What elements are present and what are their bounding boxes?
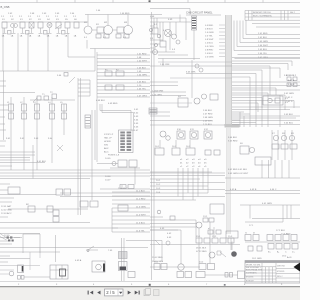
relay K3	[55, 16, 62, 38]
cab header text	[186, 11, 221, 16]
ladder rung 6	[97, 72, 150, 74]
right mid wires	[225, 178, 300, 205]
svg-text:2 / 5: 2 / 5	[106, 290, 115, 295]
ladder rung 4	[97, 65, 150, 67]
zone dot	[149, 284, 151, 286]
cab lamp	[165, 30, 172, 37]
connector row B wire	[245, 241, 300, 243]
svg-text:SH 2: SH 2	[290, 12, 296, 14]
rung ladder labels lower	[136, 191, 146, 233]
svg-text:11.6 YEL: 11.6 YEL	[136, 231, 146, 233]
cab lamp 3	[153, 50, 158, 55]
svg-text:4.03 B: 4.03 B	[250, 189, 257, 191]
cluster boxes mid-bottom	[80, 201, 128, 211]
ladder rung 9	[97, 82, 150, 84]
solenoid L1	[7, 97, 14, 135]
relay cluster mid-left	[24, 158, 140, 277]
svg-text:BOBCAT: BOBCAT	[246, 280, 254, 283]
fanout wire 7	[235, 58, 301, 60]
left bus verticals	[4, 71, 96, 215]
elbow labels	[96, 100, 118, 105]
svg-text:6.05 CRK: 6.05 CRK	[186, 72, 196, 74]
relay bank right	[272, 133, 297, 149]
bottom chain wire	[150, 267, 238, 275]
relay cluster mid-right	[228, 137, 255, 154]
svg-text:2.02 BLK: 2.02 BLK	[258, 37, 268, 39]
harness band	[226, 15, 232, 127]
wire right elbow rows	[245, 205, 300, 222]
bottom-mid extra stubs	[150, 217, 178, 230]
svg-text:4.09 RED: 4.09 RED	[108, 103, 118, 105]
fuse F1	[105, 70, 112, 77]
relay labels	[177, 129, 209, 131]
gauge M1	[84, 15, 92, 35]
svg-text:4.01 GRN: 4.01 GRN	[262, 203, 272, 205]
right mid labels	[230, 188, 277, 205]
right ladder wires	[232, 66, 300, 125]
svg-text:3.04 BLU: 3.04 BLU	[284, 123, 294, 125]
svg-text:14.07: 14.07	[105, 180, 111, 182]
svg-text:B_OSB: B_OSB	[1, 5, 10, 9]
svg-text:ACC: ACC	[104, 151, 109, 154]
svg-text:DWG NO: DWG NO	[277, 266, 286, 268]
connector J1 hatched	[192, 16, 197, 60]
svg-text:0.8 WHT: 0.8 WHT	[205, 39, 214, 41]
svg-text:ELECTRICAL SYS: ELECTRICAL SYS	[246, 269, 263, 272]
fanout short lines	[252, 24, 300, 28]
relay K1	[19, 16, 25, 38]
mesh label grid	[180, 159, 207, 168]
connector row B	[245, 233, 297, 241]
right mid texts	[228, 169, 249, 175]
cab wire extra2	[150, 18, 186, 48]
right ladder extra lines	[232, 58, 300, 123]
svg-text:1.05 CRK: 1.05 CRK	[160, 64, 170, 66]
wire lower loop	[0, 49, 150, 72]
bottom-mid diagonal	[217, 251, 226, 257]
solenoid L3	[33, 97, 40, 135]
fuse F3	[105, 85, 124, 90]
svg-text:7.02 D: 7.02 D	[286, 101, 293, 103]
svg-text:1.04 GRN: 1.04 GRN	[137, 75, 147, 77]
svg-text:A-: A-	[277, 251, 279, 254]
solenoid L2	[20, 97, 27, 135]
row2 bus wires	[0, 77, 75, 102]
svg-text:CAB CIRCUIT PANEL: CAB CIRCUIT PANEL	[186, 11, 213, 15]
fanout wire 6	[238, 54, 301, 56]
svg-text:6720185: 6720185	[277, 271, 284, 273]
svg-text:11.3 GRN: 11.3 GRN	[136, 207, 146, 209]
page top border	[0, 0, 300, 3]
upper chain wires	[150, 220, 196, 227]
svg-text:FUSES 1-8: FUSES 1-8	[108, 155, 120, 157]
svg-text:0.8 BLK: 0.8 BLK	[205, 29, 213, 31]
cluster near 200,222	[196, 216, 214, 228]
cab extra wires	[150, 15, 200, 67]
alternator A1	[92, 261, 105, 272]
fanout wire 2	[243, 21, 300, 39]
gauge M3	[124, 15, 133, 35]
toolbar first-page button	[88, 291, 94, 295]
label column right of panel	[134, 109, 139, 132]
mesh verticals	[178, 168, 208, 200]
diode D1	[195, 64, 203, 72]
comp vertical B4	[53, 210, 59, 222]
left lower wires	[0, 190, 118, 234]
svg-text:3.03 BLK: 3.03 BLK	[284, 114, 294, 116]
svg-text:SCHEMATIC: SCHEMATIC	[246, 272, 258, 275]
svg-text:2.01 RED: 2.01 RED	[258, 33, 268, 35]
svg-text:0.5 YEL: 0.5 YEL	[205, 36, 214, 38]
svg-text:4.04 C: 4.04 C	[270, 189, 277, 191]
connector C3 with marks	[119, 262, 128, 271]
starter cluster	[50, 265, 68, 279]
top small boxes row	[96, 34, 129, 38]
right ladder labels	[284, 75, 294, 125]
lower cluster labels	[100, 185, 150, 190]
fanout wire 3	[240, 21, 300, 43]
toolbar snapshot icon disabled	[144, 289, 151, 296]
ladder rung 7	[97, 75, 150, 77]
bottom-left wires	[0, 235, 148, 262]
battery comp	[9, 265, 24, 279]
right mid verticals	[262, 160, 289, 178]
relay K4 cluster	[178, 60, 218, 107]
svg-text:1.0 GRN: 1.0 GRN	[205, 32, 214, 34]
svg-text:BOBCAT 743 DSL: BOBCAT 743 DSL	[253, 11, 272, 14]
row2 comp labels	[6, 138, 53, 140]
resistor block R1	[96, 24, 104, 33]
toolbar hand icon disabled	[154, 290, 160, 296]
solenoid L4	[48, 97, 55, 135]
svg-text:15.03 GRN: 15.03 GRN	[152, 261, 163, 263]
svg-text:1.03 BLK: 1.03 BLK	[137, 68, 147, 70]
right cluster lower	[263, 96, 289, 105]
left lower text cluster	[1, 205, 12, 215]
svg-text:11.4 WHT: 11.4 WHT	[136, 215, 146, 217]
ladder rung 12	[97, 93, 150, 95]
svg-text:STOP LP: STOP LP	[104, 134, 114, 136]
fuse F2	[116, 70, 124, 77]
wire left edge stubs	[0, 81, 30, 262]
toolbar prev button	[97, 291, 100, 295]
svg-text:11.2 RED: 11.2 RED	[136, 199, 146, 201]
cab circles extra	[150, 16, 181, 51]
svg-text:6.02 B: 6.02 B	[288, 84, 295, 86]
toolbar next button	[128, 291, 131, 295]
chain small comps	[225, 273, 233, 278]
chain boxes 2	[199, 262, 215, 270]
box B1	[8, 187, 20, 194]
wire mid fillers	[60, 66, 232, 197]
svg-text:4.02 A: 4.02 A	[230, 188, 237, 191]
bottom zone ticks	[18, 284, 283, 286]
lamp L11 dark	[231, 251, 237, 257]
diode D2	[57, 145, 63, 151]
toolbar top line	[0, 286, 300, 288]
chain lamp	[178, 264, 184, 270]
mesh box	[210, 204, 224, 214]
relay K2	[28, 16, 34, 38]
svg-text:07 22 RED: 07 22 RED	[196, 251, 207, 253]
wire top bus	[2, 15, 162, 23]
switch S6	[73, 16, 79, 38]
svg-text:11.5 BLU: 11.5 BLU	[136, 223, 145, 225]
switch S2	[10, 16, 17, 38]
cab lamp 2	[172, 34, 177, 39]
switch S5	[64, 16, 70, 38]
stub wires to band	[219, 25, 225, 57]
right text cluster B	[286, 97, 293, 103]
boxes pair upper	[56, 189, 71, 195]
svg-text:3.02 GRN: 3.02 GRN	[284, 93, 294, 95]
fanout wire 5	[234, 21, 300, 51]
lamp L10	[209, 252, 215, 258]
filler faint wires	[0, 62, 232, 274]
wire gauge row connections	[92, 29, 124, 31]
svg-text:IGN: IGN	[104, 145, 108, 147]
svg-text:5.02 RED 6.01 BLK: 5.02 RED 6.01 BLK	[228, 169, 248, 171]
zone dot right	[224, 284, 226, 286]
svg-text:2.09 WHT: 2.09 WHT	[203, 121, 214, 123]
chain end box	[238, 271, 245, 279]
svg-text:7.01 C: 7.01 C	[286, 97, 293, 99]
pointer marker	[294, 263, 301, 272]
ladder rung 10	[97, 86, 150, 88]
svg-text:12.02 GND: 12.02 GND	[1, 210, 12, 212]
wire across	[126, 240, 162, 242]
svg-text:6.01 A: 6.01 A	[288, 79, 295, 82]
left long wires	[0, 152, 225, 179]
svg-text:1.06 YEL: 1.06 YEL	[137, 89, 147, 91]
svg-text:AUX: AUX	[104, 147, 109, 150]
harness tail	[227, 128, 231, 234]
boxes row under relays	[155, 146, 195, 155]
harness cap	[225, 124, 240, 128]
wire right fillers	[150, 112, 300, 160]
svg-text:4.08 BLK: 4.08 BLK	[96, 100, 106, 102]
gauge M2	[104, 15, 113, 35]
fanout wire 1	[246, 21, 300, 35]
connector row C	[268, 244, 298, 254]
sender boxes	[37, 92, 57, 100]
bottom mid connector row	[196, 236, 234, 243]
bottom right connector rows extra	[248, 246, 262, 251]
svg-text:3.01 RED: 3.01 RED	[284, 75, 294, 77]
bottom right texts	[252, 256, 287, 261]
hatched block H1	[149, 108, 157, 114]
svg-text:TAIL LP: TAIL LP	[104, 137, 112, 140]
svg-text:5.03 GRN 6.02 WHT: 5.03 GRN 6.02 WHT	[228, 173, 249, 175]
svg-text:4.02 A: 4.02 A	[75, 259, 82, 262]
svg-text:1.0 BLU: 1.0 BLU	[205, 43, 213, 45]
svg-text:8.01 BLK: 8.01 BLK	[37, 161, 47, 163]
right text cluster A	[288, 79, 295, 86]
right cluster upper	[286, 75, 297, 87]
bottom bus verticals	[122, 238, 125, 281]
fanout wire 4	[237, 21, 300, 47]
svg-text:1.01 RED: 1.01 RED	[137, 54, 147, 56]
elbow to fuse panel	[100, 104, 134, 131]
right box	[255, 157, 271, 165]
svg-text:2.05 BLU: 2.05 BLU	[258, 49, 268, 51]
svg-text:5.04 BLK: 5.04 BLK	[228, 137, 238, 139]
svg-text:14.06: 14.06	[105, 176, 111, 178]
svg-text:5.05 RED: 5.05 RED	[228, 141, 238, 143]
wire label column mid	[203, 110, 214, 126]
svg-text:0.8 RED: 0.8 RED	[205, 50, 214, 52]
svg-text:2.08 GRN: 2.08 GRN	[203, 117, 213, 119]
svg-text:18.1 GND: 18.1 GND	[252, 258, 262, 260]
inline comp B2	[26, 204, 35, 212]
svg-text:12.03 ACC: 12.03 ACC	[1, 212, 12, 215]
svg-text:A-01: A-01	[287, 256, 292, 259]
switch S3	[37, 16, 43, 38]
ladder rung 3	[97, 61, 150, 63]
ladder rung 8	[97, 79, 150, 81]
small box mid	[57, 73, 68, 78]
spine verticals	[152, 12, 155, 280]
svg-text:2.06 BLK: 2.06 BLK	[203, 110, 213, 112]
bottom mid wires	[150, 227, 240, 262]
gauge sublabels	[84, 37, 127, 39]
ladder rung 1	[97, 54, 150, 56]
svg-text:06 21 BLK: 06 21 BLK	[196, 248, 207, 250]
bottom-mid box right	[226, 231, 238, 250]
top row extra labels	[8, 10, 101, 15]
chain boxes 1	[154, 262, 167, 270]
svg-text:1.05 BLU: 1.05 BLU	[137, 82, 147, 84]
mid wire labels	[152, 64, 196, 97]
pigtail box	[85, 115, 91, 128]
cab box A	[152, 28, 158, 34]
scattered mid comps	[155, 210, 175, 245]
svg-text:15.02 RED: 15.02 RED	[152, 257, 163, 259]
svg-text:17.2 BLK: 17.2 BLK	[276, 230, 286, 232]
relay trio mid	[160, 131, 212, 140]
rung labels	[137, 54, 148, 98]
top row tie boxes	[8, 31, 66, 35]
fanout labels	[258, 33, 269, 59]
resistor block R2	[117, 27, 124, 33]
svg-text:0.5 RED: 0.5 RED	[205, 25, 214, 27]
cab box B	[160, 41, 166, 47]
mesh horizontals	[150, 172, 225, 200]
ladder rung 13	[97, 96, 150, 98]
svg-text:ELEC SCHEMATIC: ELEC SCHEMATIC	[253, 15, 272, 18]
revision table	[245, 11, 300, 21]
svg-text:6720185: 6720185	[246, 277, 253, 279]
wire crossing frame	[23, 234, 40, 253]
svg-text:HORN: HORN	[104, 141, 111, 143]
ladder rung 5	[97, 68, 150, 70]
svg-text:14.05: 14.05	[105, 158, 111, 160]
svg-text:1.02 WHT: 1.02 WHT	[137, 61, 148, 63]
svg-text:0.5 ORG: 0.5 ORG	[205, 46, 214, 48]
wires under relays	[150, 121, 225, 149]
key switch	[86, 246, 98, 252]
switch S4	[46, 16, 52, 38]
chain boxes lower	[177, 272, 205, 278]
right rung ladder lower	[112, 192, 150, 232]
ladder vertical bus	[96, 52, 98, 162]
svg-text:2.07 RED: 2.07 RED	[203, 114, 213, 116]
inline comp B3	[47, 206, 53, 212]
bottom-mid comp column	[196, 228, 221, 253]
solenoid L5	[60, 102, 67, 135]
small comps row lower right	[205, 150, 220, 155]
switch S1	[1, 16, 7, 38]
svg-text:2.03 GRN: 2.03 GRN	[258, 41, 268, 43]
svg-text:11.1 BLK: 11.1 BLK	[136, 191, 145, 193]
svg-text:1.07 ORG: 1.07 ORG	[137, 96, 147, 98]
svg-text:2.04 WHT: 2.04 WHT	[258, 45, 269, 47]
mesh side labels	[156, 180, 161, 194]
title block	[245, 261, 300, 284]
svg-text:1.0 BLK: 1.0 BLK	[205, 53, 213, 55]
svg-text:REV C: REV C	[277, 276, 283, 278]
wire label column	[205, 25, 214, 59]
toolbar background	[0, 287, 300, 300]
right verticals	[250, 95, 280, 127]
toolbar last-page button	[135, 291, 140, 295]
dark label plate	[0, 234, 20, 242]
svg-text:0.5 GRN: 0.5 GRN	[205, 57, 214, 59]
wire drops from row1	[3, 28, 87, 71]
hatched connector C2	[119, 252, 128, 259]
page bottom border	[0, 281, 300, 283]
crossing verticals row2	[11, 135, 52, 179]
comp C4	[128, 272, 135, 278]
left bus rungs	[78, 80, 90, 96]
node labels right	[249, 225, 291, 236]
dark text above title block	[287, 256, 292, 259]
ladder rung 11	[97, 89, 150, 91]
toolbar page input	[105, 289, 124, 296]
cab cluster wires	[150, 22, 191, 52]
svg-text:12.01 BAT: 12.01 BAT	[1, 205, 12, 208]
fuse panel FP1	[108, 130, 133, 157]
bottom-mid text cluster	[167, 233, 172, 239]
svg-text:2.06 YEL: 2.06 YEL	[258, 53, 268, 55]
fuse panel labels	[104, 134, 114, 154]
ladder rung 2	[97, 58, 150, 60]
wire top cab	[150, 9, 190, 15]
verticals above chain	[150, 222, 210, 264]
zone dot top	[149, 0, 151, 2]
